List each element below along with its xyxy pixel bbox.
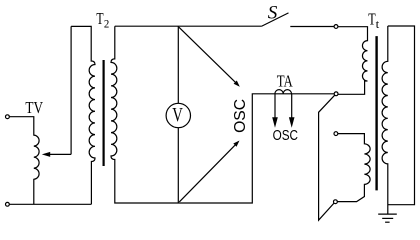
svg-text:OSC: OSC xyxy=(273,128,298,144)
svg-text:OSC: OSC xyxy=(232,99,249,133)
svg-text:TA: TA xyxy=(277,72,294,91)
svg-text:S: S xyxy=(268,3,278,24)
svg-text:V: V xyxy=(172,104,183,126)
svg-text:TV: TV xyxy=(25,98,43,117)
svg-text:T: T xyxy=(96,9,104,28)
svg-text:2: 2 xyxy=(104,16,109,30)
svg-text:t: t xyxy=(376,17,380,31)
